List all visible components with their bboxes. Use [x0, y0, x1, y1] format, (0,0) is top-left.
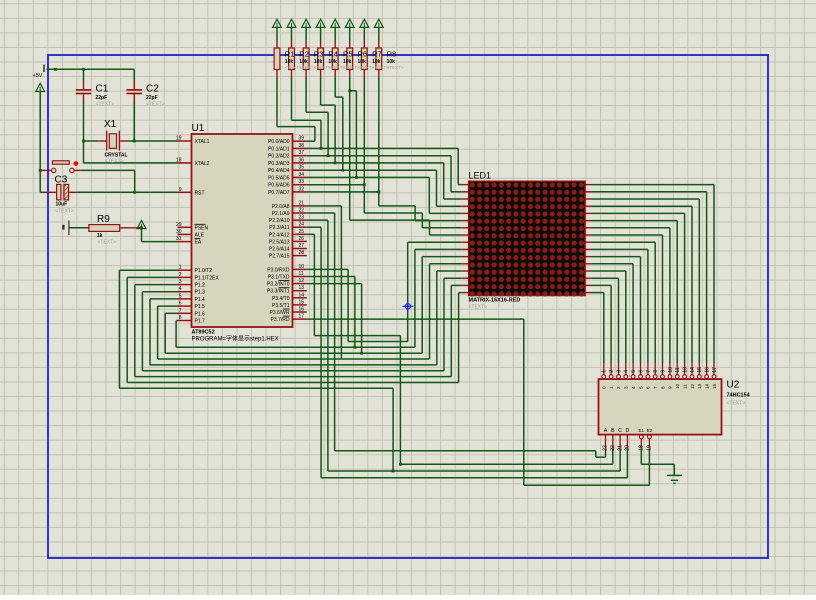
svg-text:15: 15: [299, 299, 305, 305]
svg-text:C2: C2: [146, 84, 159, 95]
svg-text:P1.7: P1.7: [195, 319, 206, 325]
svg-text:9: 9: [660, 370, 666, 373]
svg-text:P1.6: P1.6: [195, 311, 206, 317]
svg-text:10uF: 10uF: [56, 201, 68, 207]
svg-text:<TEXT>: <TEXT>: [105, 158, 124, 164]
svg-text:26: 26: [299, 236, 305, 242]
svg-text:32: 32: [299, 186, 305, 192]
svg-text:<TEXT>: <TEXT>: [387, 65, 404, 70]
svg-text:22pF: 22pF: [96, 95, 108, 101]
svg-text:<TEXT>: <TEXT>: [146, 102, 165, 108]
svg-text:7: 7: [179, 308, 182, 314]
svg-text:1: 1: [602, 370, 608, 373]
svg-text:27: 27: [299, 243, 305, 249]
svg-text:P1.0/T2: P1.0/T2: [195, 268, 213, 274]
svg-text:P1.1/T2EX: P1.1/T2EX: [195, 275, 220, 281]
svg-text:+5V: +5V: [33, 73, 43, 79]
svg-text:36: 36: [299, 157, 305, 163]
svg-text:23: 23: [603, 445, 609, 451]
svg-text:<TEXT>: <TEXT>: [98, 240, 117, 246]
svg-text:6: 6: [179, 301, 182, 307]
svg-text:R4: R4: [328, 50, 338, 59]
svg-text:5: 5: [631, 370, 637, 373]
svg-text:34: 34: [299, 172, 305, 178]
svg-text:22: 22: [610, 445, 616, 451]
svg-text:74HC154: 74HC154: [727, 393, 751, 399]
svg-text:C1: C1: [96, 84, 109, 95]
svg-text:R9: R9: [97, 214, 110, 225]
svg-text:R6: R6: [358, 50, 368, 59]
svg-text:P2.7/A15: P2.7/A15: [269, 254, 290, 260]
svg-text:6: 6: [646, 386, 651, 389]
svg-text:10: 10: [675, 383, 680, 389]
svg-text:E1: E1: [639, 428, 645, 433]
svg-text:P1.2: P1.2: [195, 283, 206, 289]
svg-text:24: 24: [299, 222, 305, 228]
svg-text:<TEXT>: <TEXT>: [727, 401, 746, 407]
svg-text:1: 1: [179, 265, 182, 271]
svg-text:4: 4: [179, 286, 182, 292]
svg-text:D: D: [626, 428, 630, 434]
svg-text:<TEXT>: <TEXT>: [96, 102, 115, 108]
svg-text:P2.3/A11: P2.3/A11: [269, 225, 289, 231]
svg-text:6: 6: [638, 370, 644, 373]
svg-text:9: 9: [179, 187, 182, 193]
svg-text:P3.2/INT0: P3.2/INT0: [267, 282, 290, 288]
svg-text:38: 38: [299, 143, 305, 149]
svg-text:7: 7: [646, 370, 652, 373]
svg-text:R2: R2: [299, 50, 309, 59]
svg-text:31: 31: [176, 236, 182, 242]
svg-text:R3: R3: [314, 50, 324, 59]
svg-text:11: 11: [682, 384, 687, 389]
svg-text:13: 13: [697, 383, 702, 389]
svg-text:P0.1/AD1: P0.1/AD1: [268, 146, 290, 152]
svg-text:ALE: ALE: [195, 232, 205, 238]
svg-text:9: 9: [668, 386, 673, 389]
svg-text:22pF: 22pF: [146, 95, 158, 101]
svg-text:P2.4/A12: P2.4/A12: [269, 232, 290, 238]
svg-text:8: 8: [660, 386, 665, 389]
svg-text:P2.1/A9: P2.1/A9: [272, 211, 290, 217]
svg-text:4: 4: [624, 370, 630, 373]
svg-text:18: 18: [639, 445, 645, 451]
svg-text:P2.6/A14: P2.6/A14: [269, 247, 290, 253]
svg-text:P3.5/T1: P3.5/T1: [272, 303, 290, 309]
svg-text:XTAL2: XTAL2: [195, 161, 210, 167]
svg-text:3: 3: [179, 279, 182, 285]
svg-text:7: 7: [653, 386, 658, 389]
svg-text:E2: E2: [647, 428, 653, 433]
svg-text:P2.2/A10: P2.2/A10: [269, 218, 290, 224]
svg-text:11: 11: [675, 367, 681, 372]
svg-text:8: 8: [653, 370, 659, 373]
svg-text:C: C: [618, 428, 622, 434]
svg-text:0: 0: [602, 386, 607, 389]
svg-text:28: 28: [299, 250, 305, 256]
svg-text:P0.7/AD7: P0.7/AD7: [268, 190, 290, 196]
svg-text:21: 21: [299, 200, 305, 206]
svg-text:P1.5: P1.5: [195, 304, 206, 310]
svg-text:P3.6/WR: P3.6/WR: [269, 310, 289, 316]
svg-text:39: 39: [299, 136, 305, 142]
svg-text:EA: EA: [195, 240, 202, 246]
svg-text:C3: C3: [55, 175, 68, 186]
svg-text:23: 23: [299, 215, 305, 221]
svg-text:P0.0/AD0: P0.0/AD0: [268, 139, 290, 145]
svg-text:15: 15: [697, 367, 703, 373]
svg-text:21: 21: [617, 445, 623, 451]
svg-text:U1: U1: [192, 123, 205, 134]
svg-text:R1: R1: [285, 50, 295, 59]
svg-text:R5: R5: [343, 50, 353, 59]
svg-text:R8: R8: [387, 50, 397, 59]
svg-text:RST: RST: [195, 190, 205, 196]
svg-text:29: 29: [176, 222, 182, 228]
svg-text:35: 35: [299, 165, 305, 171]
svg-text:5: 5: [179, 293, 182, 299]
svg-text:14: 14: [704, 383, 709, 389]
svg-text:1k: 1k: [97, 233, 103, 239]
svg-text:X1: X1: [104, 119, 117, 130]
svg-text:4: 4: [631, 386, 636, 389]
svg-text:<TEXT>: <TEXT>: [469, 305, 488, 311]
svg-text:PROGRAM=字体显示step1.HEX: PROGRAM=字体显示step1.HEX: [192, 335, 279, 343]
svg-text:10: 10: [299, 264, 305, 270]
svg-text:14: 14: [690, 367, 696, 373]
svg-text:20: 20: [625, 445, 631, 451]
svg-text:P3.0/RXD: P3.0/RXD: [267, 267, 290, 273]
svg-text:17: 17: [712, 367, 718, 373]
svg-text:17: 17: [299, 314, 305, 320]
svg-text:14: 14: [299, 292, 305, 298]
svg-text:R7: R7: [372, 50, 382, 59]
svg-text:5: 5: [638, 386, 643, 389]
svg-text:P0.4/AD4: P0.4/AD4: [268, 168, 290, 174]
svg-text:LED1: LED1: [469, 171, 492, 181]
svg-text:12: 12: [690, 383, 695, 389]
svg-text:15: 15: [712, 383, 717, 389]
svg-text:P2.5/A13: P2.5/A13: [269, 239, 290, 245]
svg-text:2: 2: [609, 370, 615, 373]
svg-text:<TEXT>: <TEXT>: [55, 209, 74, 215]
svg-text:P1.3: P1.3: [195, 290, 206, 296]
svg-text:10: 10: [668, 367, 674, 373]
svg-text:13: 13: [683, 367, 689, 373]
svg-text:19: 19: [647, 445, 653, 451]
svg-text:25: 25: [299, 229, 305, 235]
svg-text:PSEN: PSEN: [195, 225, 209, 231]
svg-text:12: 12: [299, 278, 305, 284]
svg-text:P3.1/TXD: P3.1/TXD: [268, 275, 290, 281]
svg-text:18: 18: [176, 157, 182, 163]
svg-text:16: 16: [299, 307, 305, 313]
svg-text:P3.4/T0: P3.4/T0: [272, 296, 290, 302]
svg-text:P3.7/RD: P3.7/RD: [271, 317, 290, 323]
svg-text:P0.3/AD3: P0.3/AD3: [268, 161, 290, 167]
svg-text:37: 37: [299, 150, 305, 156]
svg-text:3: 3: [624, 386, 629, 389]
svg-text:13: 13: [299, 285, 305, 291]
svg-text:P0.5/AD5: P0.5/AD5: [268, 175, 290, 181]
svg-text:19: 19: [176, 136, 182, 142]
svg-text:P3.3/INT1: P3.3/INT1: [267, 289, 290, 295]
svg-text:P0.2/AD2: P0.2/AD2: [268, 154, 290, 160]
svg-text:XTAL1: XTAL1: [195, 139, 210, 145]
svg-text:33: 33: [299, 179, 305, 185]
svg-text:2: 2: [179, 272, 182, 278]
svg-text:P2.0/A8: P2.0/A8: [272, 204, 290, 210]
svg-text:P0.6/AD6: P0.6/AD6: [268, 183, 290, 189]
svg-text:AT89C52: AT89C52: [192, 330, 215, 336]
svg-text:1: 1: [609, 386, 614, 389]
svg-text:MATRIX-16X16-RED: MATRIX-16X16-RED: [469, 298, 521, 304]
svg-text:2: 2: [616, 386, 621, 389]
svg-text:30: 30: [176, 229, 182, 235]
svg-text:P1.4: P1.4: [195, 297, 206, 303]
svg-text:8: 8: [179, 315, 182, 321]
svg-text:22: 22: [299, 208, 305, 214]
svg-text:U2: U2: [727, 380, 740, 391]
svg-text:11: 11: [299, 271, 304, 277]
svg-text:3: 3: [616, 370, 622, 373]
svg-text:16: 16: [705, 367, 711, 373]
